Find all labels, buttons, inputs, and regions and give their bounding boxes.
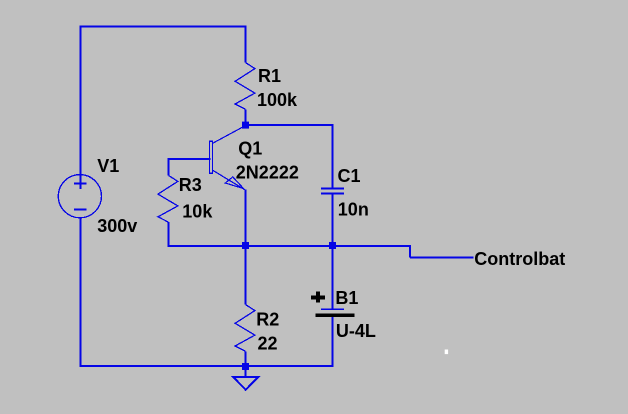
wire battery top lead [331,245,333,309]
svg-text:Controlbat: Controlbat [474,249,565,269]
node junction ground [242,363,249,370]
wire left rail upper [79,26,81,190]
resistor R3 zigzag [158,175,178,222]
svg-text:U-4L: U-4L [336,321,376,341]
ground [233,377,258,390]
voltage source V1 [58,175,101,218]
svg-text:10k: 10k [182,201,213,221]
svg-text:300v: 300v [97,216,137,236]
svg-text:R1: R1 [258,66,281,86]
wire R3 top lead [168,158,170,175]
svg-text:C1: C1 [338,166,361,186]
svg-text:R3: R3 [179,175,202,195]
battery B1 plates [311,291,354,315]
svg-text:100k: 100k [257,90,298,110]
svg-text:2N2222: 2N2222 [236,163,299,183]
svg-text:Q1: Q1 [238,138,262,158]
white dot artifact [445,350,448,355]
resistor R2 zigzag [235,305,255,352]
wire battery bottom lead [331,317,333,368]
wire controlbat step vertical [409,245,411,257]
wire left rail lower [79,218,81,368]
wire ground stub [245,365,247,377]
wire bottom rail [79,365,333,367]
wire collector junction to C1 [245,124,334,126]
wire C1 bottom lead [331,194,333,248]
wire emitter node horizontal [169,245,412,247]
wire R1 top lead [245,26,247,63]
wire C1 top lead [331,124,333,189]
svg-text:10n: 10n [338,199,369,219]
wire R1 bottom lead [245,109,247,125]
transistor Q1 [209,126,245,191]
wire base horizontal [168,158,211,160]
svg-text:V1: V1 [97,156,119,176]
wire R3 bottom lead [168,222,170,247]
svg-text:22: 22 [258,333,278,353]
wire emitter vertical [245,190,247,248]
wire R2 bottom lead [245,351,247,367]
svg-text:R2: R2 [256,309,279,329]
wire top rail [79,26,246,28]
wire controlbat horizontal [410,256,474,258]
capacitor C1 plates [321,189,344,194]
node junction collector [242,122,249,129]
svg-text:B1: B1 [335,288,358,308]
resistor R1 zigzag [235,63,255,110]
node junction emitter [242,242,249,249]
node junction C1-battery [329,242,336,249]
battery plus sign [311,296,325,300]
wire R2 top lead [245,245,247,305]
